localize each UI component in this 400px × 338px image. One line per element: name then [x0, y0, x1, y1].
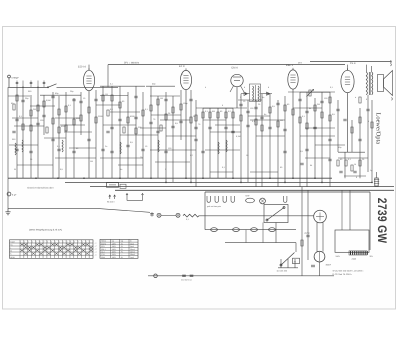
label 2445: [352, 258, 357, 261]
svg-text:Ua: Ua: [112, 240, 114, 243]
label ZF 468kHz: [124, 61, 140, 64]
resistor: [102, 95, 104, 101]
capacitor: [12, 131, 15, 133]
tube V2 EF9: [179, 65, 192, 90]
small box: [120, 184, 126, 188]
capacitor: [101, 149, 104, 151]
wire: [103, 124, 136, 126]
capacitor: [254, 107, 257, 109]
capacitor: [87, 139, 90, 141]
wire: [30, 95, 32, 178]
label C13: [181, 278, 192, 281]
capacitor: [94, 99, 97, 101]
wire: [151, 114, 181, 116]
label: [70, 90, 74, 93]
wire: [250, 171, 278, 173]
wire bus 2: [65, 181, 372, 183]
capacitor: [51, 96, 54, 98]
junction: [292, 177, 294, 179]
resistor: [284, 105, 286, 111]
label: [25, 97, 29, 100]
coil: [226, 140, 227, 152]
wire output rail: [310, 61, 391, 63]
hook terminal right top 2: [390, 63, 393, 66]
label: [340, 158, 343, 161]
lamp La2: [176, 213, 180, 217]
wire: [146, 85, 175, 87]
coil: [22, 140, 23, 152]
svg-text:240V: 240V: [336, 255, 341, 258]
wire: [52, 92, 54, 178]
capacitor: [36, 123, 39, 125]
label: [46, 99, 51, 102]
wire: [351, 120, 353, 152]
label: [222, 104, 224, 107]
label: [76, 117, 80, 120]
wire detector link: [241, 93, 272, 95]
label: [368, 120, 370, 123]
wire: [314, 98, 316, 178]
note line 2: [333, 273, 353, 276]
wire: [367, 95, 369, 172]
label CY2: [305, 232, 311, 235]
svg-text:2n: 2n: [105, 145, 107, 148]
capacitor C el 8uF: [7, 178, 17, 208]
wire: [196, 107, 247, 109]
coil: [120, 142, 121, 154]
speaker LS: [378, 71, 393, 96]
wire: [64, 131, 92, 133]
capacitor: [106, 131, 109, 133]
svg-text:1k: 1k: [354, 163, 356, 166]
wire: [65, 92, 67, 178]
label: [90, 160, 93, 163]
wire: [209, 108, 211, 178]
wire: [232, 108, 234, 178]
svg-text:EF 9: EF 9: [179, 65, 185, 68]
capacitor: [189, 99, 192, 101]
label: [324, 97, 328, 100]
resistor: [277, 121, 279, 127]
svg-text:CY 2: CY 2: [305, 232, 311, 235]
junction: [321, 182, 323, 184]
resistor: [30, 125, 32, 131]
label switch: [107, 201, 115, 204]
label: [183, 102, 188, 105]
wire: [150, 95, 180, 97]
wire strip top: [205, 191, 370, 193]
junction: [240, 182, 242, 184]
table header numbers: [20, 240, 90, 243]
wire: [338, 157, 368, 159]
label: [57, 145, 61, 148]
detector diode left: [244, 92, 248, 96]
svg-text:1M: 1M: [160, 97, 163, 100]
capacitor: [276, 103, 279, 105]
wire: [225, 108, 227, 178]
resistor R dial: [183, 214, 199, 217]
resistor: [58, 109, 60, 115]
svg-text:D-C12 bei 70-110V≈: D-C12 bei 70-110V≈: [333, 273, 353, 276]
capacitor: [283, 129, 286, 131]
label: [105, 93, 108, 96]
wire strip left: [204, 192, 206, 230]
svg-text:g: g: [93, 73, 94, 76]
resistor: [359, 97, 361, 103]
wire: [100, 85, 145, 87]
wire: [150, 86, 152, 178]
junction: [284, 182, 286, 184]
svg-text:L: L: [10, 247, 11, 250]
wire antenna bus: [8, 87, 48, 89]
junction: [150, 177, 152, 179]
wire: [210, 171, 233, 173]
wire: [111, 86, 113, 178]
svg-text:EM4: EM4: [101, 256, 105, 259]
junction: [165, 182, 167, 184]
resistor: [58, 127, 60, 133]
wire: [22, 87, 24, 178]
svg-text:2M: 2M: [317, 103, 320, 106]
label: [244, 86, 245, 89]
wire: [12, 117, 38, 119]
wire: [288, 91, 335, 93]
trimmer stubs above bus: [16, 81, 46, 88]
resistor: [345, 160, 347, 166]
resistor: [119, 102, 121, 108]
heater shunt 3: [251, 228, 258, 232]
label: [332, 113, 336, 116]
output transformer primary: [366, 72, 367, 95]
label: [280, 166, 283, 169]
wire: [7, 87, 9, 178]
wire: [305, 127, 335, 129]
wire: [40, 94, 81, 96]
wire V5 riser: [347, 65, 349, 152]
svg-text:60mA: 60mA: [130, 253, 135, 256]
svg-text:Ug: Ug: [121, 240, 123, 243]
resistor: [225, 112, 227, 118]
capacitor: [72, 99, 75, 101]
label: [76, 147, 79, 150]
table X marks: [20, 243, 92, 254]
label dial resistor: [186, 218, 190, 221]
wire: [30, 105, 55, 107]
heater shunt 4: [269, 228, 276, 232]
mains transformer frame: [335, 230, 369, 252]
capacitor: [358, 139, 361, 141]
resistor: [150, 105, 152, 111]
wire: [135, 86, 137, 178]
resistor: [135, 128, 137, 134]
wire: [157, 96, 159, 178]
resistor: [13, 104, 15, 110]
wire: [100, 95, 128, 97]
capacitor: [305, 149, 308, 151]
junction: [232, 177, 234, 179]
wire: [203, 119, 226, 121]
wire: [9, 86, 48, 88]
capacitor: [194, 127, 197, 129]
svg-text:ECH4: ECH4: [101, 242, 106, 245]
svg-text:–5: –5: [95, 254, 97, 257]
wire: [190, 90, 192, 182]
capacitor: [141, 149, 144, 151]
wire drop b: [262, 223, 264, 243]
wire: [110, 111, 140, 113]
resistor: [359, 160, 361, 166]
svg-text:–3: –3: [95, 248, 97, 251]
label: [240, 96, 242, 99]
svg-text:1M: 1M: [90, 160, 93, 163]
capacitor: [126, 145, 129, 147]
wire: [9, 144, 38, 146]
label: [300, 150, 304, 153]
mains filter box: [107, 183, 119, 188]
label: [212, 110, 215, 113]
svg-text:ECH 4: ECH 4: [78, 66, 86, 69]
wire M2 down: [319, 262, 321, 276]
capacitor: [134, 117, 137, 119]
capacitor: [320, 101, 323, 103]
svg-text:2n: 2n: [193, 115, 195, 118]
capacitor: [201, 151, 204, 153]
capacitor: [246, 111, 249, 113]
label: [302, 115, 306, 118]
label: [190, 154, 194, 157]
label: [181, 73, 184, 76]
svg-text:W: W: [14, 168, 16, 171]
wire: [305, 157, 330, 159]
capacitor: [305, 111, 308, 113]
wire dial to motor: [199, 215, 314, 217]
label: [68, 104, 72, 107]
wire: [142, 92, 144, 178]
label: [130, 141, 134, 144]
label: [165, 168, 167, 171]
choke winding dark: [349, 251, 367, 255]
socket 1: [207, 196, 210, 202]
label: [287, 103, 290, 106]
tube V5 CL4: [341, 62, 356, 93]
svg-text:S-C12 bei 110-220V≈, 20-220V=: S-C12 bei 110-220V≈, 20-220V=: [333, 270, 365, 273]
wire: [119, 86, 121, 178]
resistor: [329, 115, 331, 121]
ground chassis: [5, 208, 10, 215]
resistor: [88, 107, 90, 113]
wire: [44, 137, 66, 139]
label 6x96pF: [12, 77, 20, 80]
wire: [118, 164, 143, 166]
antenna terminal A: [8, 75, 11, 87]
coil: [218, 142, 219, 154]
resistor: [46, 127, 48, 133]
wire: [202, 108, 204, 178]
table title: [29, 229, 62, 232]
wire: [107, 65, 109, 88]
table side notes: [95, 242, 97, 257]
wire dial slope: [95, 208, 150, 212]
svg-text:5k: 5k: [309, 107, 311, 110]
svg-text:5,1M: 5,1M: [236, 135, 241, 138]
table voltages text: [101, 240, 135, 259]
capacitor: [298, 99, 301, 101]
table switch-matrix frame: [10, 240, 94, 258]
resistor: [329, 97, 331, 103]
svg-text:EBL 1: EBL 1: [286, 64, 294, 67]
svg-text:36mA: 36mA: [130, 248, 135, 251]
wire: [255, 100, 257, 187]
label: [198, 123, 201, 126]
capacitor: [224, 127, 227, 129]
switch bracket with arrows: [126, 193, 144, 200]
svg-text:5k: 5k: [310, 164, 312, 167]
label: [268, 86, 269, 89]
svg-text:C13 5M C14: C13 5M C14: [181, 278, 192, 281]
resistor: [123, 127, 125, 133]
wire strip right: [369, 192, 371, 250]
output transformer core: [369, 72, 370, 95]
table voltages frame: [100, 239, 138, 258]
label: [220, 110, 223, 113]
resistor: [16, 95, 18, 101]
svg-text:6×96pF: 6×96pF: [12, 77, 20, 80]
wire V1 anode riser: [88, 65, 90, 179]
label: [205, 110, 209, 113]
resistor: [30, 110, 32, 116]
resistor: [73, 119, 75, 125]
capacitor: [194, 139, 197, 141]
capacitor 30mF: [311, 265, 315, 267]
resistor: [321, 112, 323, 118]
wire: [261, 94, 263, 187]
label: [356, 176, 358, 179]
wire: [217, 108, 219, 178]
wire: [37, 87, 39, 178]
label: [243, 100, 246, 103]
wire HT top rail: [108, 64, 345, 66]
resistor: [127, 117, 129, 123]
label: [246, 154, 249, 157]
detector diode right: [267, 92, 271, 95]
svg-text:–1: –1: [95, 242, 97, 245]
wire V4 drop: [292, 89, 294, 178]
svg-text:k: k: [205, 86, 206, 89]
capacitor: [339, 171, 342, 173]
connector X: [260, 198, 266, 204]
resistor: [351, 165, 353, 171]
resistor: [80, 115, 82, 121]
svg-text:–2: –2: [95, 245, 97, 248]
label: [12, 138, 16, 141]
wire: [238, 99, 262, 101]
wire: [300, 135, 335, 137]
capacitor: [343, 119, 346, 121]
svg-text:5M: 5M: [212, 110, 215, 113]
label: [250, 107, 254, 110]
label: [120, 168, 122, 171]
wire: [344, 152, 346, 178]
resistor: [255, 119, 257, 125]
resistor: [22, 124, 24, 130]
capacitor: [300, 163, 303, 165]
svg-text:EBL1: EBL1: [101, 248, 105, 251]
label voltages: [277, 270, 287, 273]
junction: [57, 177, 59, 179]
wire: [299, 92, 301, 187]
resistor: [52, 118, 54, 124]
heater shunt 1: [211, 228, 218, 232]
resistor: [314, 105, 316, 111]
capacitor: [72, 151, 75, 153]
resistor: [65, 106, 67, 112]
capacitor: [134, 96, 137, 98]
label: [258, 103, 261, 106]
label: [55, 92, 59, 95]
capacitor: [179, 121, 182, 123]
wire drop c: [295, 243, 297, 252]
capacitor: [29, 151, 32, 153]
svg-text:30mF: 30mF: [326, 264, 332, 267]
mains switch box: [264, 205, 288, 223]
svg-text:5n: 5n: [264, 113, 266, 116]
svg-text:EM 4: EM 4: [232, 67, 239, 70]
resistor: [180, 104, 182, 110]
wire: [95, 90, 97, 178]
label 240V: [336, 255, 341, 258]
wire bus 3: [90, 186, 394, 188]
wire: [248, 115, 270, 117]
label: [28, 90, 32, 93]
label: [264, 113, 266, 116]
wire: [43, 95, 45, 135]
svg-text:CL 4: CL 4: [350, 62, 356, 65]
label: [272, 105, 276, 108]
wire: [73, 98, 75, 178]
resistor: [306, 123, 308, 129]
switch S1: [47, 84, 56, 88]
label: [262, 96, 264, 99]
wire: [300, 91, 330, 93]
resistor: [195, 115, 197, 121]
tube V4 EBL1: [286, 64, 298, 89]
wire: [166, 135, 196, 137]
label ZF2: [298, 61, 303, 64]
resistor: [107, 110, 109, 116]
capacitor: [366, 109, 369, 111]
wire mid rail: [225, 242, 296, 244]
label: [338, 146, 342, 149]
wire M1 down: [317, 223, 323, 252]
capacitor: [21, 100, 24, 102]
label: [348, 158, 352, 161]
svg-text:d: d: [268, 86, 269, 89]
wire: [55, 117, 80, 119]
wire: [293, 107, 322, 109]
label: [317, 103, 320, 106]
wire: [307, 190, 309, 260]
label: [222, 166, 226, 169]
voltage selector: [278, 253, 298, 268]
resistor: [301, 240, 303, 246]
wire: [58, 96, 60, 178]
svg-text:Taste: Taste: [10, 240, 15, 243]
svg-text:EF9: EF9: [101, 245, 104, 248]
wire drop a: [245, 230, 247, 243]
capacitor: [110, 127, 113, 129]
svg-text:Röhre: Röhre: [101, 240, 106, 243]
label: [110, 83, 114, 86]
